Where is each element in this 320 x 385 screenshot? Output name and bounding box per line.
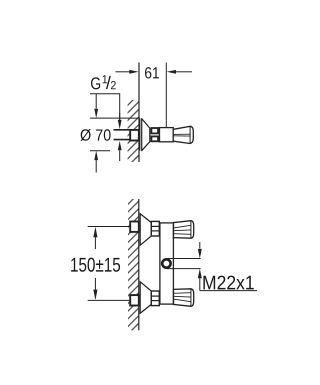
label 61	[145, 67, 159, 78]
M22x1 arrows	[199, 242, 201, 249]
body rings	[151, 128, 158, 133]
mixer body	[160, 223, 174, 304]
wall line + left extension line of 61	[138, 63, 140, 163]
label 150±15	[71, 258, 120, 272]
bottom union nut	[130, 295, 139, 305]
label M22x1	[203, 276, 253, 290]
label Ø 70	[81, 129, 111, 141]
top flange	[140, 214, 151, 245]
bottom rings	[151, 291, 159, 306]
valve body	[160, 128, 174, 142]
pipe (G1/2 nipple)	[114, 129, 131, 131]
label G 1/2	[91, 77, 100, 89]
top handle	[174, 221, 194, 239]
extension line bottom connection	[88, 299, 130, 301]
handle (side view)	[173, 126, 193, 143]
G1/2 up arrow at pipe bottom	[118, 141, 122, 150]
dimension 150±15	[93, 227, 97, 300]
wall line bottom	[138, 199, 140, 330]
dimension Ø70 extension lines	[90, 117, 139, 119]
G1/2 leader line	[90, 94, 120, 121]
wall hatching bottom view	[128, 199, 139, 330]
bottom handle	[174, 289, 194, 307]
outlet circle (M22 thread)	[162, 259, 170, 267]
top rings	[151, 221, 159, 236]
right extension line of 61	[165, 63, 167, 131]
union nut (square)	[130, 130, 139, 141]
top union nut	[130, 222, 139, 232]
flange (escutcheon) side view	[140, 118, 150, 150]
Ø70 arrows	[95, 94, 97, 109]
G1/2 down arrow at pipe top	[118, 120, 122, 129]
M22x1 shelf line	[200, 290, 257, 292]
bottom flange	[140, 282, 151, 313]
M22x1 extension lines	[167, 258, 201, 260]
dimension 61	[116, 70, 193, 74]
extension line top connection	[88, 226, 130, 228]
wall hatching top view	[128, 100, 139, 162]
